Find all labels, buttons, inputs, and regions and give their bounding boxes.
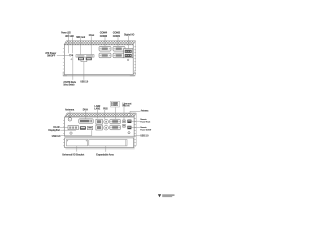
leader antenna right [130,111,140,113]
logo mark [158,194,161,197]
com3 connector [99,53,111,58]
top device top hatched face [64,41,136,45]
bottom tray outer [65,138,135,149]
leader lan [97,110,99,119]
top device right hatched side [133,41,136,75]
svg-text:USB 3.0: USB 3.0 [52,134,61,138]
label ATX Power ON/OFF [45,51,56,57]
leader com box [114,107,116,119]
small dot [71,59,72,60]
svg-text:PS/2: PS/2 [103,106,108,110]
svg-text:COM1: COM1 [111,103,118,107]
leader displayport [60,129,76,131]
svg-text:DisplayPort: DisplayPort [48,128,60,132]
label Power LED [61,30,71,34]
leader universal bracket [76,146,78,151]
leader com4com3 [104,37,106,46]
svg-text:Power On/Off: Power On/Off [140,129,151,132]
label remote power on/off [140,126,151,132]
svg-text:Power Reset: Power Reset [140,121,150,124]
leader at/atx mode [72,56,74,80]
usb 3.0 connector [87,126,92,129]
bottom device left edge ticks [63,121,64,134]
label SIM Card [76,35,85,39]
leader digital io [127,36,129,48]
top device left edge ticks [63,49,64,72]
svg-text:DVI-I: DVI-I [83,107,89,111]
label universal io bracket [62,153,84,157]
svg-text:COM3: COM3 [100,34,108,38]
remote power reset connector [127,120,131,123]
svg-text:Power LED: Power LED [61,30,71,34]
svg-text:Expandable Area: Expandable Area [96,153,114,157]
tray left edge ticks [63,139,65,145]
label CFast [89,33,94,37]
mic-in jack [123,124,126,127]
com1 connector bottom device [110,125,121,130]
ps/2 port top [104,119,109,124]
leader line-out [123,107,125,120]
svg-text:ON/OFF: ON/OFF [47,54,56,58]
label lan2 lan1 [94,104,101,110]
svg-text:USB 2.0: USB 2.0 [140,134,148,138]
leader usb 3.0 elbow [61,130,92,135]
usb port block 1 [78,58,84,61]
dvi connector [79,119,93,123]
power button bottom device [128,132,130,134]
label ps/2 [103,106,108,110]
leader remote power on/off [132,127,140,129]
leader atx power [57,54,70,56]
sim/cfast slot bar [76,55,94,57]
label COM4 COM3 [100,31,108,38]
leader usb 2.0 [83,62,85,80]
leader usb 2.0 right [134,135,140,137]
bottom device front face [65,117,135,136]
universal io bracket box [66,140,87,146]
displayport connector [80,126,86,129]
label AT/ATX Mode Select Switch [63,80,76,86]
label antenna left [65,108,75,112]
hdd led square [72,54,74,56]
leader remote power reset [132,120,140,122]
lan2 port [96,119,102,124]
svg-text:Universal I/O Bracket: Universal I/O Bracket [62,153,84,157]
label USB 2.0 bottom of top device [80,79,88,83]
bottom device right hatched side [134,113,136,148]
label remote power reset [140,118,150,123]
label COM2 COM1 [113,31,121,38]
logo text [162,195,174,198]
label antenna right [141,109,149,113]
leader dvi [85,111,87,119]
lan1 port [96,125,102,130]
com4 connector [99,46,111,51]
label usb 3.0 [52,134,61,138]
top device gray bottom lip [63,75,134,77]
leader ps2 [104,110,106,119]
leader com2com1 [117,37,119,46]
line-out jack [123,120,126,123]
com2 connector [113,46,125,51]
expandable area box [89,140,127,146]
svg-text:USB 2.0: USB 2.0 [80,79,88,83]
antenna hole left [68,118,72,122]
svg-text:Mic-in: Mic-in [123,104,130,108]
usb port block 2 [86,58,92,61]
bottom device top hatched face [65,113,136,117]
label dvi-i [83,107,89,111]
ps/2 port bottom [104,125,109,130]
label Digital I/O [124,33,134,37]
svg-text:CFast: CFast [89,33,94,37]
leader dc-in [60,127,68,129]
leader power led [67,34,69,54]
com2 connector bottom device [110,119,121,124]
digital io terminal block [124,49,133,58]
svg-text:LAN1: LAN1 [94,106,100,110]
antenna hole right [127,113,130,116]
svg-text:Antenna: Antenna [141,109,149,113]
label displayport [48,128,60,132]
screw below digital io [127,59,129,61]
dc-in terminal block [68,126,78,130]
leader hdd led [72,37,74,53]
label expandable area [96,153,114,157]
top device front face [64,45,133,75]
label line-out mic-in [123,101,132,107]
leader sim card [80,38,82,54]
svg-text:COM1: COM1 [113,34,121,38]
com1 connector [113,53,125,58]
usb yoke [81,60,87,61]
leader cfast [90,36,92,54]
top device right foot [130,72,136,76]
svg-text:Digital I/O: Digital I/O [124,33,134,37]
label dc-in [53,125,59,129]
leader expandable area [105,146,107,152]
power button [69,54,71,56]
leader antenna left [69,111,71,117]
top device left foot [63,72,67,76]
svg-text:SIM Card: SIM Card [76,35,85,39]
antenna hole lower-left [70,132,72,134]
label HDD LED [65,34,74,38]
svg-text:Select Switch: Select Switch [63,82,74,86]
remote power on/off connector [127,126,131,129]
label com2 com1 boxed [111,101,120,107]
label usb 2.0 right [140,134,148,138]
